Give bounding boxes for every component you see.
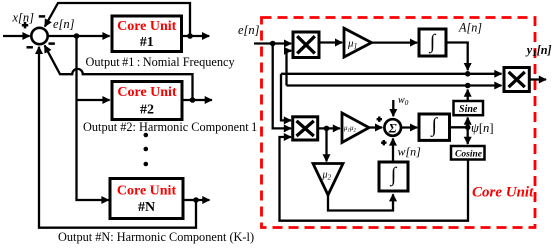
- svg-text:Cosine: Cosine: [455, 149, 483, 159]
- svg-text:Output #N: Harmonic Component: Output #N: Harmonic Component (K-l): [58, 230, 254, 244]
- svg-text:x[n]: x[n]: [12, 11, 35, 25]
- svg-text:A[n]: A[n]: [458, 21, 482, 35]
- svg-text:Sine: Sine: [459, 104, 478, 115]
- svg-text:ψ[n]: ψ[n]: [471, 121, 494, 135]
- svg-text:w[n]: w[n]: [398, 145, 422, 159]
- svg-text:e[n]: e[n]: [238, 23, 260, 37]
- svg-text:#1: #1: [140, 35, 154, 50]
- svg-text:Core Unit: Core Unit: [117, 85, 177, 100]
- svg-text:Output #1 : Nomial Frequency: Output #1 : Nomial Frequency: [86, 55, 236, 69]
- svg-text:Core Unit: Core Unit: [472, 185, 534, 201]
- svg-text:Core Unit: Core Unit: [117, 19, 177, 34]
- svg-text:y1[n]: y1[n]: [525, 43, 552, 58]
- svg-text:Core Unit: Core Unit: [117, 184, 177, 199]
- svg-text:Output #2: Harmonic Component: Output #2: Harmonic Component 1: [83, 120, 257, 134]
- svg-text:Σ: Σ: [388, 120, 397, 135]
- svg-text:e[n]: e[n]: [53, 17, 75, 31]
- svg-text:#N: #N: [138, 200, 155, 215]
- svg-text:#2: #2: [140, 103, 154, 118]
